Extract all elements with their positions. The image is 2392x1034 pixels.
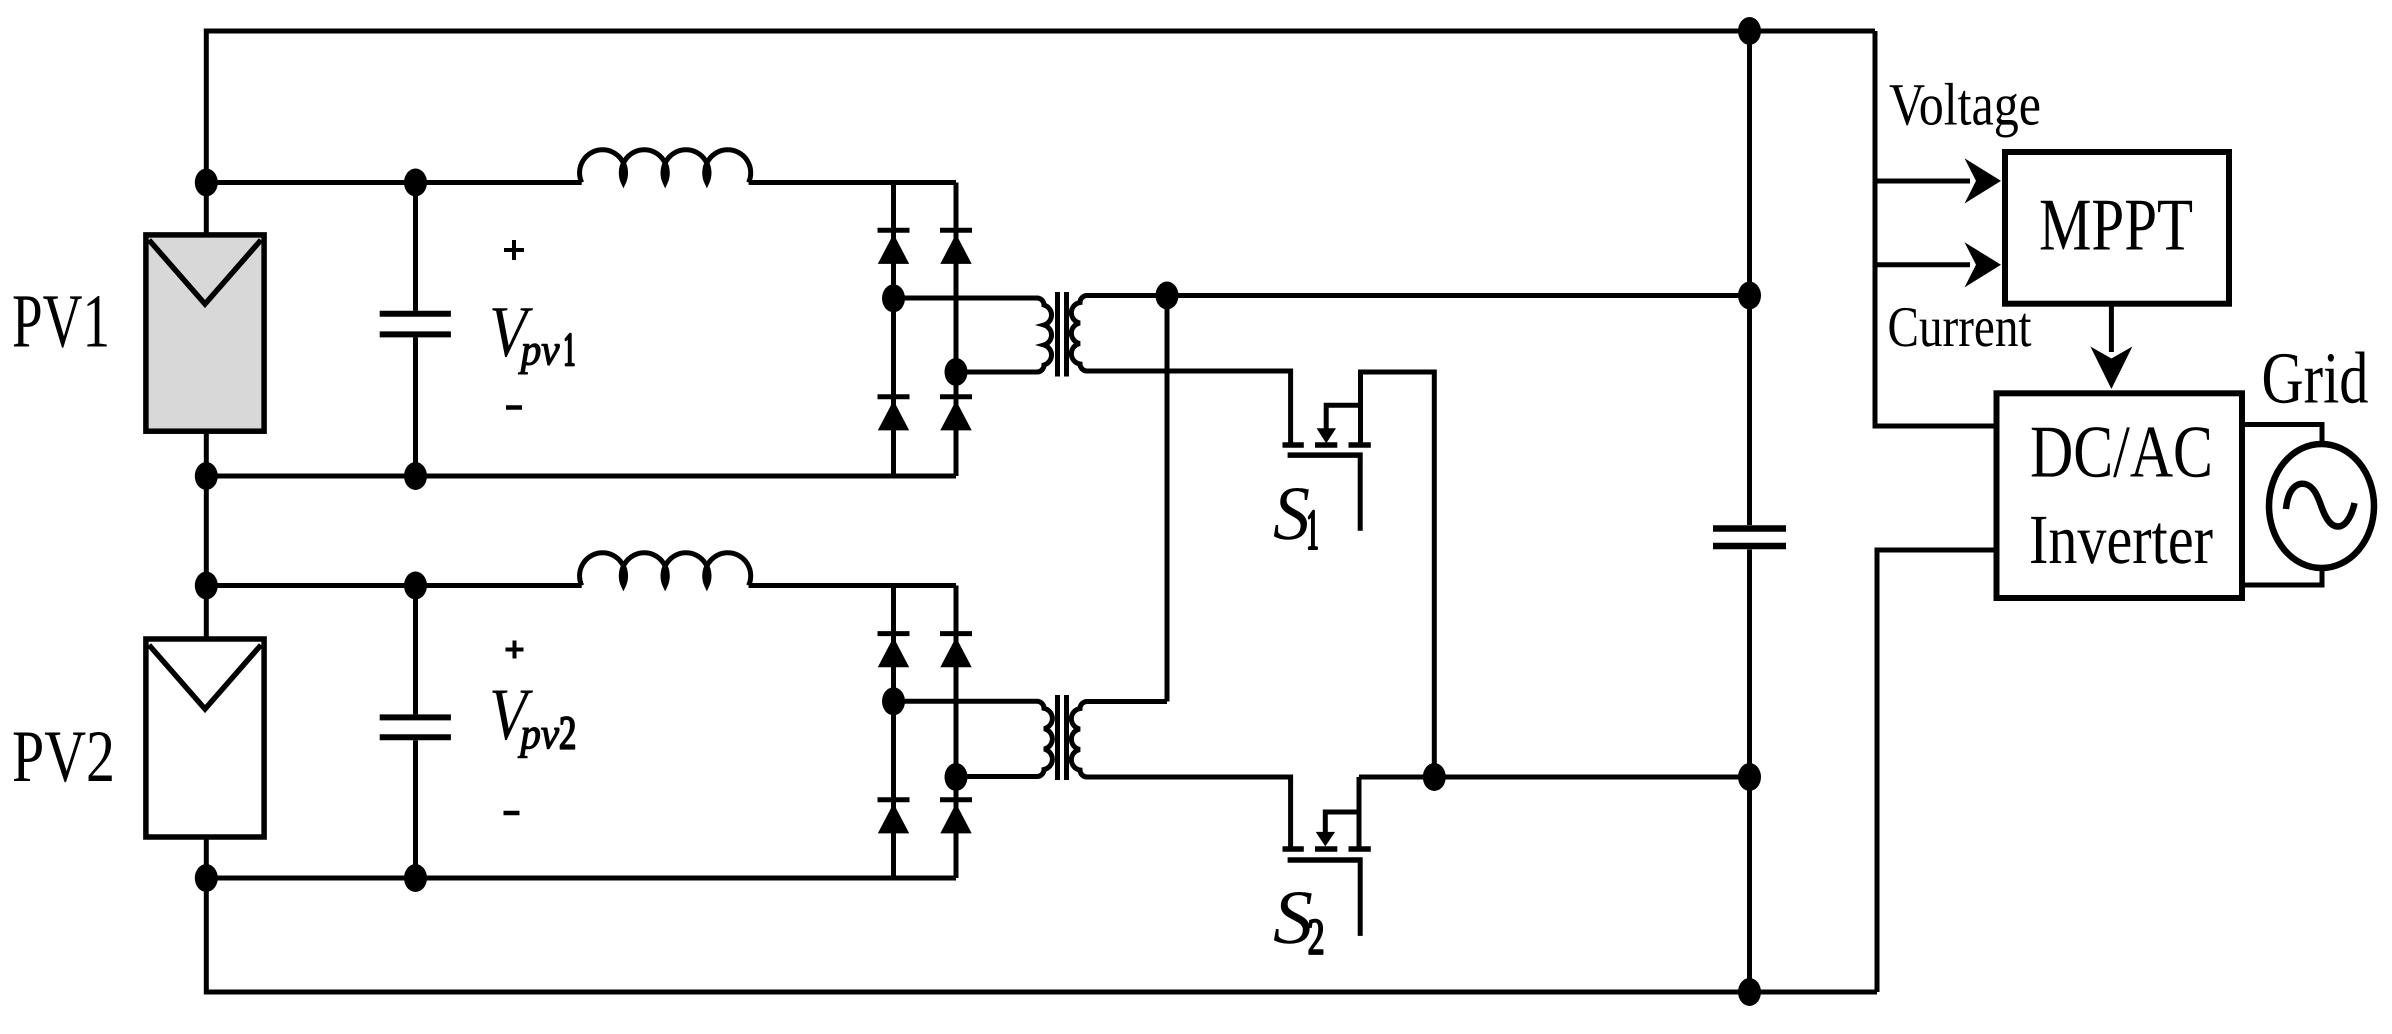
transformer TR2 core [1058,695,1067,780]
node C2 bottom [404,864,427,892]
svg-text:PV2: PV2 [12,716,115,798]
capacitor C3 bottom lead [1747,550,1752,993]
node PV1 top left [195,169,218,197]
label Vpv1 [489,291,574,374]
diode D1 [878,230,910,264]
node PV2 top left [195,572,218,600]
MOSFET S1 contact bars [1283,442,1371,448]
wire transformer link vertical [1165,296,1170,702]
svg-text:S: S [1273,470,1310,556]
PV panel PV2 [146,639,264,837]
transformer TR1 secondary winding [1071,296,1290,443]
wire PV2 top rail [206,583,956,588]
diode D8 [940,800,972,834]
diode D6 [940,634,972,668]
label plus C2 [506,641,524,659]
MOSFET S1 gate lead [1358,458,1363,531]
MOSFET S2 gate lead [1358,863,1363,936]
wire sense bus vertical [1875,31,1996,426]
node bottom bus C3 [1738,978,1761,1006]
transformer TR2 primary winding [894,701,1053,776]
node B1 left leg [882,284,905,312]
diode D3 [878,397,910,431]
diode bridge B1 left leg [891,183,896,477]
PV panel PV1 [146,235,264,431]
svg-text:Inverter: Inverter [2029,501,2213,579]
MOSFET S2 source lead [1357,777,1362,847]
wire source link rail [1359,775,1750,780]
DC/AC inverter box U2 [1997,393,2243,598]
label plus C1 [504,240,524,260]
node B2 left leg [882,687,905,715]
label minus C1 [506,405,522,410]
svg-text:PV1: PV1 [12,279,110,364]
diode bridge B1 right leg [954,183,959,477]
inductor L2 [580,553,751,586]
node top bus C3 [1738,17,1761,45]
wire DC link mid rail [1167,293,1750,298]
node C1 top [404,169,427,197]
capacitor C3 plates [1713,529,1786,547]
svg-text:S: S [1273,874,1313,960]
node source link S1 [1423,763,1446,791]
wire top DC bus [206,29,1875,34]
arrow MPPT to inverter [2090,304,2132,389]
svg-text:V: V [489,674,534,756]
svg-text:Grid: Grid [2262,337,2369,418]
svg-text:Voltage: Voltage [1889,71,2041,137]
inductor L1 [580,150,751,183]
transformer TR1 primary winding [894,298,1052,372]
capacitor C2 [380,586,451,879]
wire bottom bus to inverter [1877,550,1996,992]
MOSFET S1 body arrow [1317,405,1361,443]
MOSFET S2 gate bar [1288,857,1363,863]
node B2 right leg [945,763,968,791]
MOSFET S1 source lead [1361,372,1435,777]
node PV2 bottom left [195,864,218,892]
capacitor C1 [380,183,451,477]
node PV1 bottom left [195,462,218,490]
node TR1 secondary [1156,282,1179,310]
wire inverter to grid bottom [2242,566,2322,585]
svg-text:MPPT: MPPT [2039,185,2193,267]
node B1 right leg [945,358,968,386]
diode D2 [940,230,972,264]
wire PV1 bottom rail [206,474,956,479]
label Vpv2 [489,674,574,758]
AC source grid circle [2269,444,2374,568]
svg-text:DC/AC: DC/AC [2030,412,2213,494]
capacitor C3 DC link top lead [1747,31,1752,525]
node DC link mid C3 [1738,282,1761,310]
label minus C2 [504,811,520,816]
AC source sine wave [2286,484,2355,527]
wire PV1 top rail [206,180,956,185]
wire inverter to grid top [2242,425,2322,445]
transformer TR1 core [1058,292,1067,377]
label S2 [1273,874,1323,960]
diode D5 [878,634,910,668]
diode D4 [940,397,972,431]
arrow current sense [1875,242,2001,287]
arrow voltage sense [1875,158,2001,203]
wire bottom DC bus [206,990,1877,995]
diode D7 [878,800,910,834]
transformer TR2 secondary winding [1071,702,1290,847]
diode bridge B2 left leg [891,586,896,879]
wire left PV string column [204,29,209,995]
MOSFET S2 contact bars [1283,846,1371,852]
node source link C3 [1738,763,1761,791]
node C1 bottom [404,462,427,490]
label S1 [1273,470,1317,556]
MOSFET S1 gate bar [1288,452,1363,458]
MOSFET S2 body arrow [1316,812,1359,846]
MPPT box U1 [2005,152,2229,304]
diode bridge B2 right leg [954,586,959,879]
node C2 top [404,572,427,600]
wire PV2 bottom rail [206,876,956,881]
